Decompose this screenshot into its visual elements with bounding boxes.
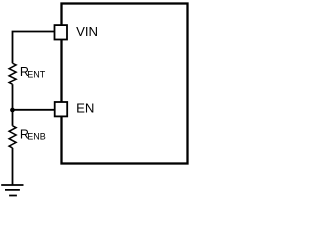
- svg-text:EN: EN: [76, 100, 94, 115]
- svg-text:ENB: ENB: [27, 131, 46, 141]
- resistor RENT: [9, 63, 16, 84]
- svg-text:VIN: VIN: [76, 24, 98, 39]
- svg-text:ENT: ENT: [27, 69, 46, 79]
- wire EN horizontal: [13, 109, 56, 111]
- ground: [1, 185, 23, 196]
- resistor RENB: [9, 126, 16, 148]
- wire to ground: [12, 148, 14, 185]
- junction dot node EN: [10, 108, 15, 113]
- pin square VIN: [55, 25, 68, 39]
- wire VIN net (top horizontal + left rail upper segment): [13, 32, 56, 64]
- wire rail between resistors: [12, 84, 14, 126]
- pin square EN: [55, 102, 67, 116]
- IC body U1: [62, 4, 188, 164]
